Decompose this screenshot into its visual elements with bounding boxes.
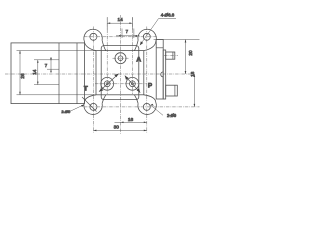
svg-text:30: 30 — [114, 125, 120, 131]
wire centerline ports horizontal — [95, 83, 147, 85]
ear hole top-left — [90, 33, 97, 40]
svg-text:14: 14 — [118, 17, 124, 23]
wire extension line right top — [154, 39, 200, 41]
right view internal step line — [156, 47, 163, 49]
flange ear lobe top-right — [134, 29, 156, 50]
wire internal vertical line x77 — [76, 43, 78, 104]
right view boss top cap line — [172, 52, 174, 59]
dimension right upper — [185, 40, 187, 75]
flange ear lobe bottom-right — [134, 95, 156, 115]
dimension right lower — [194, 74, 196, 107]
wire extension line y84.6 — [34, 84, 59, 86]
arrow diagonal through port T — [99, 74, 119, 92]
svg-text:P: P — [148, 83, 153, 90]
top hole outer circle — [115, 53, 126, 64]
right view shaft bump — [161, 72, 164, 77]
dimension 26 left view — [19, 51, 21, 95]
flange ear lobe top-left — [84, 29, 106, 50]
wire extension line y59.8 — [34, 59, 59, 61]
flange plate edges front view — [96, 51, 144, 95]
flange ear lobe bottom-left — [84, 95, 106, 115]
wire centerline horizontal main — [5, 73, 191, 75]
svg-text:26: 26 — [20, 73, 25, 79]
wire internal vertical line x59 — [58, 43, 60, 104]
svg-text:A: A — [136, 57, 141, 64]
wire extension lines 14 top — [107, 18, 132, 31]
wire centerline vertical main — [120, 15, 122, 134]
wire centerline ear holes left vertical — [92, 27, 94, 133]
wire extension lines 7 top — [122, 29, 134, 39]
ear hole bottom-right — [143, 103, 150, 110]
wire diagonal through bottom-left ear hole — [82, 97, 97, 112]
wire centerline boss right view — [164, 55, 178, 57]
ear hole top-right — [143, 33, 150, 40]
ear hole bottom-left — [90, 103, 97, 110]
svg-text:7: 7 — [126, 29, 129, 34]
wire centerline top hole horizontal — [113, 57, 129, 59]
arrow diagonal through port P — [125, 76, 140, 93]
body front view rounded rect — [101, 46, 139, 100]
dimension 14 top — [107, 22, 132, 24]
right view boss bottom — [166, 85, 178, 96]
top hole inner circle — [118, 56, 123, 61]
wire extension line y69.2 — [47, 68, 59, 70]
wire centerline ear holes right vertical — [146, 27, 148, 133]
port T middle circle — [104, 81, 110, 87]
right view boss top — [166, 52, 175, 59]
port P outer circle — [126, 77, 139, 90]
dimension 16 bottom — [115, 122, 147, 124]
svg-text:7: 7 — [45, 63, 48, 68]
svg-text:4-Ø6.6: 4-Ø6.6 — [161, 12, 175, 17]
right view column — [163, 50, 166, 99]
wire centerline ear holes top horizontal — [84, 36, 157, 38]
port T outer circle — [101, 77, 114, 90]
svg-text:2-Ø9: 2-Ø9 — [167, 113, 177, 118]
dimension 14 left view — [37, 60, 39, 85]
dimension 7 left view — [50, 57, 52, 73]
dimension 7 top — [116, 35, 140, 37]
svg-text:20: 20 — [188, 50, 193, 56]
right view boss bottom cap line — [174, 85, 176, 96]
body left view rectangle — [11, 43, 85, 104]
wire centerline port P vertical — [131, 17, 133, 94]
right view flange strip — [156, 40, 163, 100]
wire centerline ear holes bottom horizontal — [84, 106, 200, 108]
svg-text:14: 14 — [32, 69, 37, 75]
port T center dot — [106, 83, 108, 85]
svg-text:18: 18 — [190, 71, 195, 77]
wire centerline port T vertical — [106, 17, 108, 94]
port P middle circle — [130, 81, 136, 87]
svg-text:T: T — [84, 85, 88, 92]
wire extension line flange bottom — [17, 94, 97, 96]
dimension 30 bottom — [93, 130, 146, 132]
svg-text:16: 16 — [128, 117, 134, 123]
wire extension line flange top — [17, 50, 97, 52]
port P center dot — [131, 83, 133, 85]
